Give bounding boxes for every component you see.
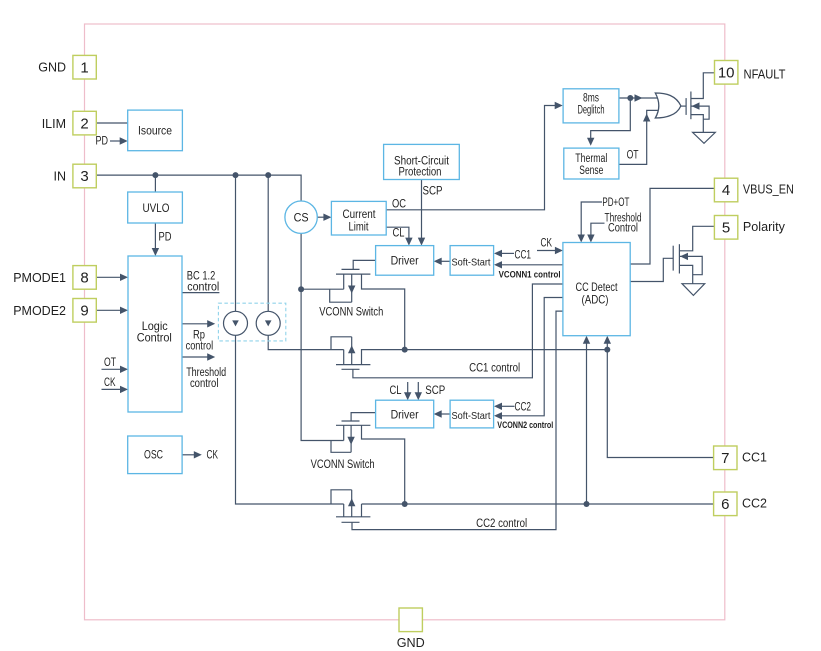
svg-text:PMODE1: PMODE1: [13, 271, 66, 285]
svg-text:ILIM: ILIM: [42, 117, 66, 131]
svg-text:VCONN Switch: VCONN Switch: [319, 307, 383, 319]
svg-text:CC2 control: CC2 control: [476, 518, 527, 530]
svg-text:VCONN2 control: VCONN2 control: [497, 420, 553, 431]
svg-text:GND: GND: [397, 635, 425, 650]
svg-text:UVLO: UVLO: [143, 201, 170, 215]
svg-text:(ADC): (ADC): [582, 292, 609, 306]
svg-text:OC: OC: [392, 198, 406, 210]
svg-text:Limit: Limit: [349, 222, 370, 234]
svg-text:Driver: Driver: [391, 407, 419, 421]
svg-text:VCONN Switch: VCONN Switch: [311, 459, 375, 471]
svg-text:6: 6: [721, 496, 729, 513]
svg-text:4: 4: [722, 182, 730, 199]
svg-text:CK: CK: [207, 449, 219, 461]
svg-text:Thermal: Thermal: [575, 153, 607, 165]
svg-text:Control: Control: [137, 331, 172, 345]
svg-text:Driver: Driver: [391, 254, 419, 268]
svg-text:PMODE2: PMODE2: [13, 304, 66, 318]
svg-text:Soft-Start: Soft-Start: [452, 256, 491, 268]
svg-text:Rp: Rp: [193, 329, 205, 341]
svg-text:7: 7: [721, 450, 729, 467]
svg-text:3: 3: [80, 168, 88, 185]
svg-text:NFAULT: NFAULT: [744, 67, 786, 82]
svg-text:Current: Current: [343, 209, 377, 221]
svg-text:CK: CK: [541, 237, 553, 249]
svg-text:Protection: Protection: [399, 167, 442, 179]
svg-text:OT: OT: [627, 150, 639, 162]
svg-text:Soft-Start: Soft-Start: [452, 410, 491, 422]
svg-text:control: control: [190, 378, 219, 390]
svg-text:SCP: SCP: [423, 186, 443, 198]
svg-text:Isource: Isource: [138, 123, 172, 137]
svg-text:CL: CL: [393, 228, 405, 240]
svg-text:10: 10: [718, 65, 735, 82]
svg-text:9: 9: [80, 303, 88, 320]
svg-text:control: control: [186, 341, 214, 353]
svg-text:GND: GND: [38, 61, 66, 75]
svg-text:8ms: 8ms: [583, 93, 599, 105]
svg-text:CL: CL: [390, 385, 402, 397]
svg-text:CC1: CC1: [515, 250, 532, 262]
svg-text:5: 5: [722, 220, 730, 237]
svg-text:CC1: CC1: [742, 450, 767, 465]
svg-text:PD+OT: PD+OT: [602, 197, 629, 209]
svg-text:CC2: CC2: [515, 402, 532, 414]
svg-text:PD: PD: [96, 136, 109, 148]
svg-text:Polarity: Polarity: [743, 219, 785, 234]
svg-text:CC2: CC2: [742, 495, 767, 510]
svg-text:Control: Control: [608, 223, 638, 235]
svg-text:CC1 control: CC1 control: [469, 363, 520, 375]
svg-text:CK: CK: [104, 377, 116, 389]
svg-text:Deglitch: Deglitch: [578, 105, 605, 117]
svg-text:OT: OT: [104, 357, 116, 369]
svg-text:SCP: SCP: [425, 385, 445, 397]
svg-text:OSC: OSC: [144, 447, 163, 461]
svg-text:2: 2: [80, 115, 88, 132]
svg-text:VCONN1 control: VCONN1 control: [499, 269, 561, 280]
svg-text:8: 8: [80, 270, 88, 287]
svg-text:1: 1: [80, 59, 88, 76]
svg-text:CS: CS: [294, 211, 309, 225]
svg-text:Sense: Sense: [579, 165, 603, 177]
svg-text:IN: IN: [54, 170, 67, 184]
svg-text:control: control: [187, 282, 219, 294]
svg-text:PD: PD: [159, 231, 172, 243]
svg-text:VBUS_EN: VBUS_EN: [743, 182, 794, 197]
svg-text:Short-Circuit: Short-Circuit: [394, 155, 450, 167]
